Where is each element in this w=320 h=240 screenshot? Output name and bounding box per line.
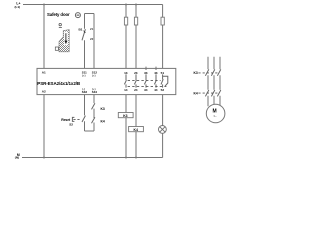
- wire lamp to rail: [162, 133, 164, 157]
- node L+ (L1) label: [15, 2, 21, 9]
- coil K3: [118, 113, 133, 118]
- mechanical link dashes upper: [128, 79, 161, 81]
- svg-text:3~: 3~: [213, 114, 217, 118]
- svg-text:23: 23: [134, 71, 138, 75]
- svg-text:(N): (N): [15, 156, 19, 160]
- wire bottom return rail: [22, 157, 163, 159]
- svg-text:24: 24: [134, 88, 138, 92]
- fuse F3: [161, 5, 164, 69]
- svg-text:K4: K4: [101, 120, 105, 124]
- pin S33 (-): [82, 87, 88, 94]
- safety relay U1 PSR-ESA2 box: [37, 68, 176, 94]
- lamp H1: [159, 125, 167, 133]
- svg-text:33: 33: [144, 71, 148, 75]
- relay contact 13-14: [124, 71, 128, 92]
- fuse F1: [124, 4, 127, 69]
- svg-text:S34: S34: [92, 90, 98, 94]
- svg-text:44: 44: [154, 88, 158, 92]
- contactor K3 main contacts: [205, 69, 220, 89]
- label K4 with link dashes: [194, 91, 218, 95]
- wire A2 drop to return rail: [43, 95, 45, 158]
- contact B1 (safety door NC): [82, 29, 85, 68]
- wire 52 to lamp: [162, 95, 164, 126]
- wire S33 drop: [84, 95, 86, 116]
- label B1 with actuation arrow: [79, 27, 86, 33]
- wire 24 to K4 coil: [135, 95, 137, 127]
- node M (N) label: [15, 153, 20, 160]
- door leaf (hatched): [59, 30, 69, 52]
- wire reset loop bottom: [85, 130, 95, 132]
- label Reset / S2: [61, 118, 73, 127]
- wire top supply rail L+: [23, 4, 163, 6]
- svg-text:K3: K3: [101, 107, 105, 111]
- three-phase supply lines: [208, 57, 220, 69]
- contact K3 aux: [92, 103, 105, 118]
- wire S34 drop: [93, 95, 95, 104]
- svg-text:K3: K3: [123, 114, 127, 118]
- svg-text:(L1): (L1): [15, 5, 21, 9]
- junction dot rail/A1: [43, 4, 45, 6]
- svg-text:(+): (+): [92, 74, 95, 78]
- wire A1 drop from L+ rail: [43, 5, 45, 69]
- svg-text:51: 51: [161, 71, 165, 75]
- pin S12 (+): [92, 71, 98, 78]
- mechanical link dashes lower: [128, 85, 167, 87]
- wire K3 coil to rail: [125, 118, 127, 158]
- door motion arrow: [64, 32, 68, 46]
- wire loop top connector: [85, 13, 95, 15]
- svg-text:52: 52: [161, 88, 165, 92]
- svg-text:S33: S33: [82, 90, 88, 94]
- svg-text:K3: K3: [194, 71, 198, 75]
- wire 14 to K3 coil: [125, 95, 127, 113]
- relay mirror contact 51-52: [161, 71, 168, 92]
- svg-text:K4: K4: [134, 128, 138, 132]
- contactor K4 main contacts: [205, 90, 220, 106]
- svg-text:A2: A2: [42, 90, 46, 94]
- svg-text:Safety door: Safety door: [47, 12, 70, 17]
- svg-text:B1: B1: [79, 27, 83, 31]
- door latch block: [55, 47, 58, 50]
- svg-text:(+): (+): [82, 74, 85, 78]
- svg-text:43: 43: [154, 71, 158, 75]
- svg-text:34: 34: [144, 88, 148, 92]
- label K3 with link dashes: [194, 71, 218, 75]
- coil K4: [129, 127, 144, 132]
- relay contact 23-24: [134, 71, 138, 92]
- svg-text:13: 13: [124, 71, 128, 75]
- contact K4 aux: [92, 117, 105, 131]
- motor M1: [206, 104, 225, 123]
- svg-text:PSR-ESA2/4x1/1x2/B: PSR-ESA2/4x1/1x2/B: [37, 81, 81, 86]
- fuse F2: [134, 4, 137, 69]
- wire S11 loop left side upper: [84, 14, 86, 29]
- guard-lock symbol (circled minus): [75, 13, 80, 18]
- pin S34 (+): [92, 87, 98, 94]
- pushbutton S2 Reset: [72, 116, 85, 131]
- junction dot rail/A2: [43, 157, 45, 159]
- pin S11 (+): [82, 71, 87, 78]
- svg-text:S2: S2: [69, 123, 73, 127]
- wire K4 coil to rail: [135, 132, 137, 158]
- relay contact 43-44: [154, 67, 158, 92]
- svg-text:21: 21: [90, 27, 94, 31]
- svg-text:Reset: Reset: [61, 118, 71, 122]
- svg-text:22: 22: [90, 37, 94, 41]
- relay contact 33-34: [144, 67, 148, 92]
- wire S12 loop right side: [93, 14, 95, 69]
- door hinge glyph: [59, 23, 62, 27]
- svg-text:K4: K4: [194, 91, 198, 95]
- svg-text:A1: A1: [42, 71, 46, 75]
- svg-text:14: 14: [124, 88, 128, 92]
